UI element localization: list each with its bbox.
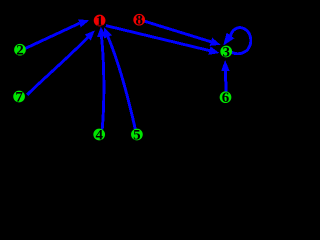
svg-text:2: 2 bbox=[16, 43, 24, 59]
svg-text:3: 3 bbox=[222, 44, 230, 60]
svg-text:5: 5 bbox=[133, 127, 141, 143]
svg-text:8: 8 bbox=[135, 13, 143, 29]
svg-text:1: 1 bbox=[96, 13, 104, 29]
svg-text:6: 6 bbox=[222, 90, 230, 106]
svg-text:7: 7 bbox=[15, 89, 23, 105]
svg-text:4: 4 bbox=[95, 127, 103, 143]
